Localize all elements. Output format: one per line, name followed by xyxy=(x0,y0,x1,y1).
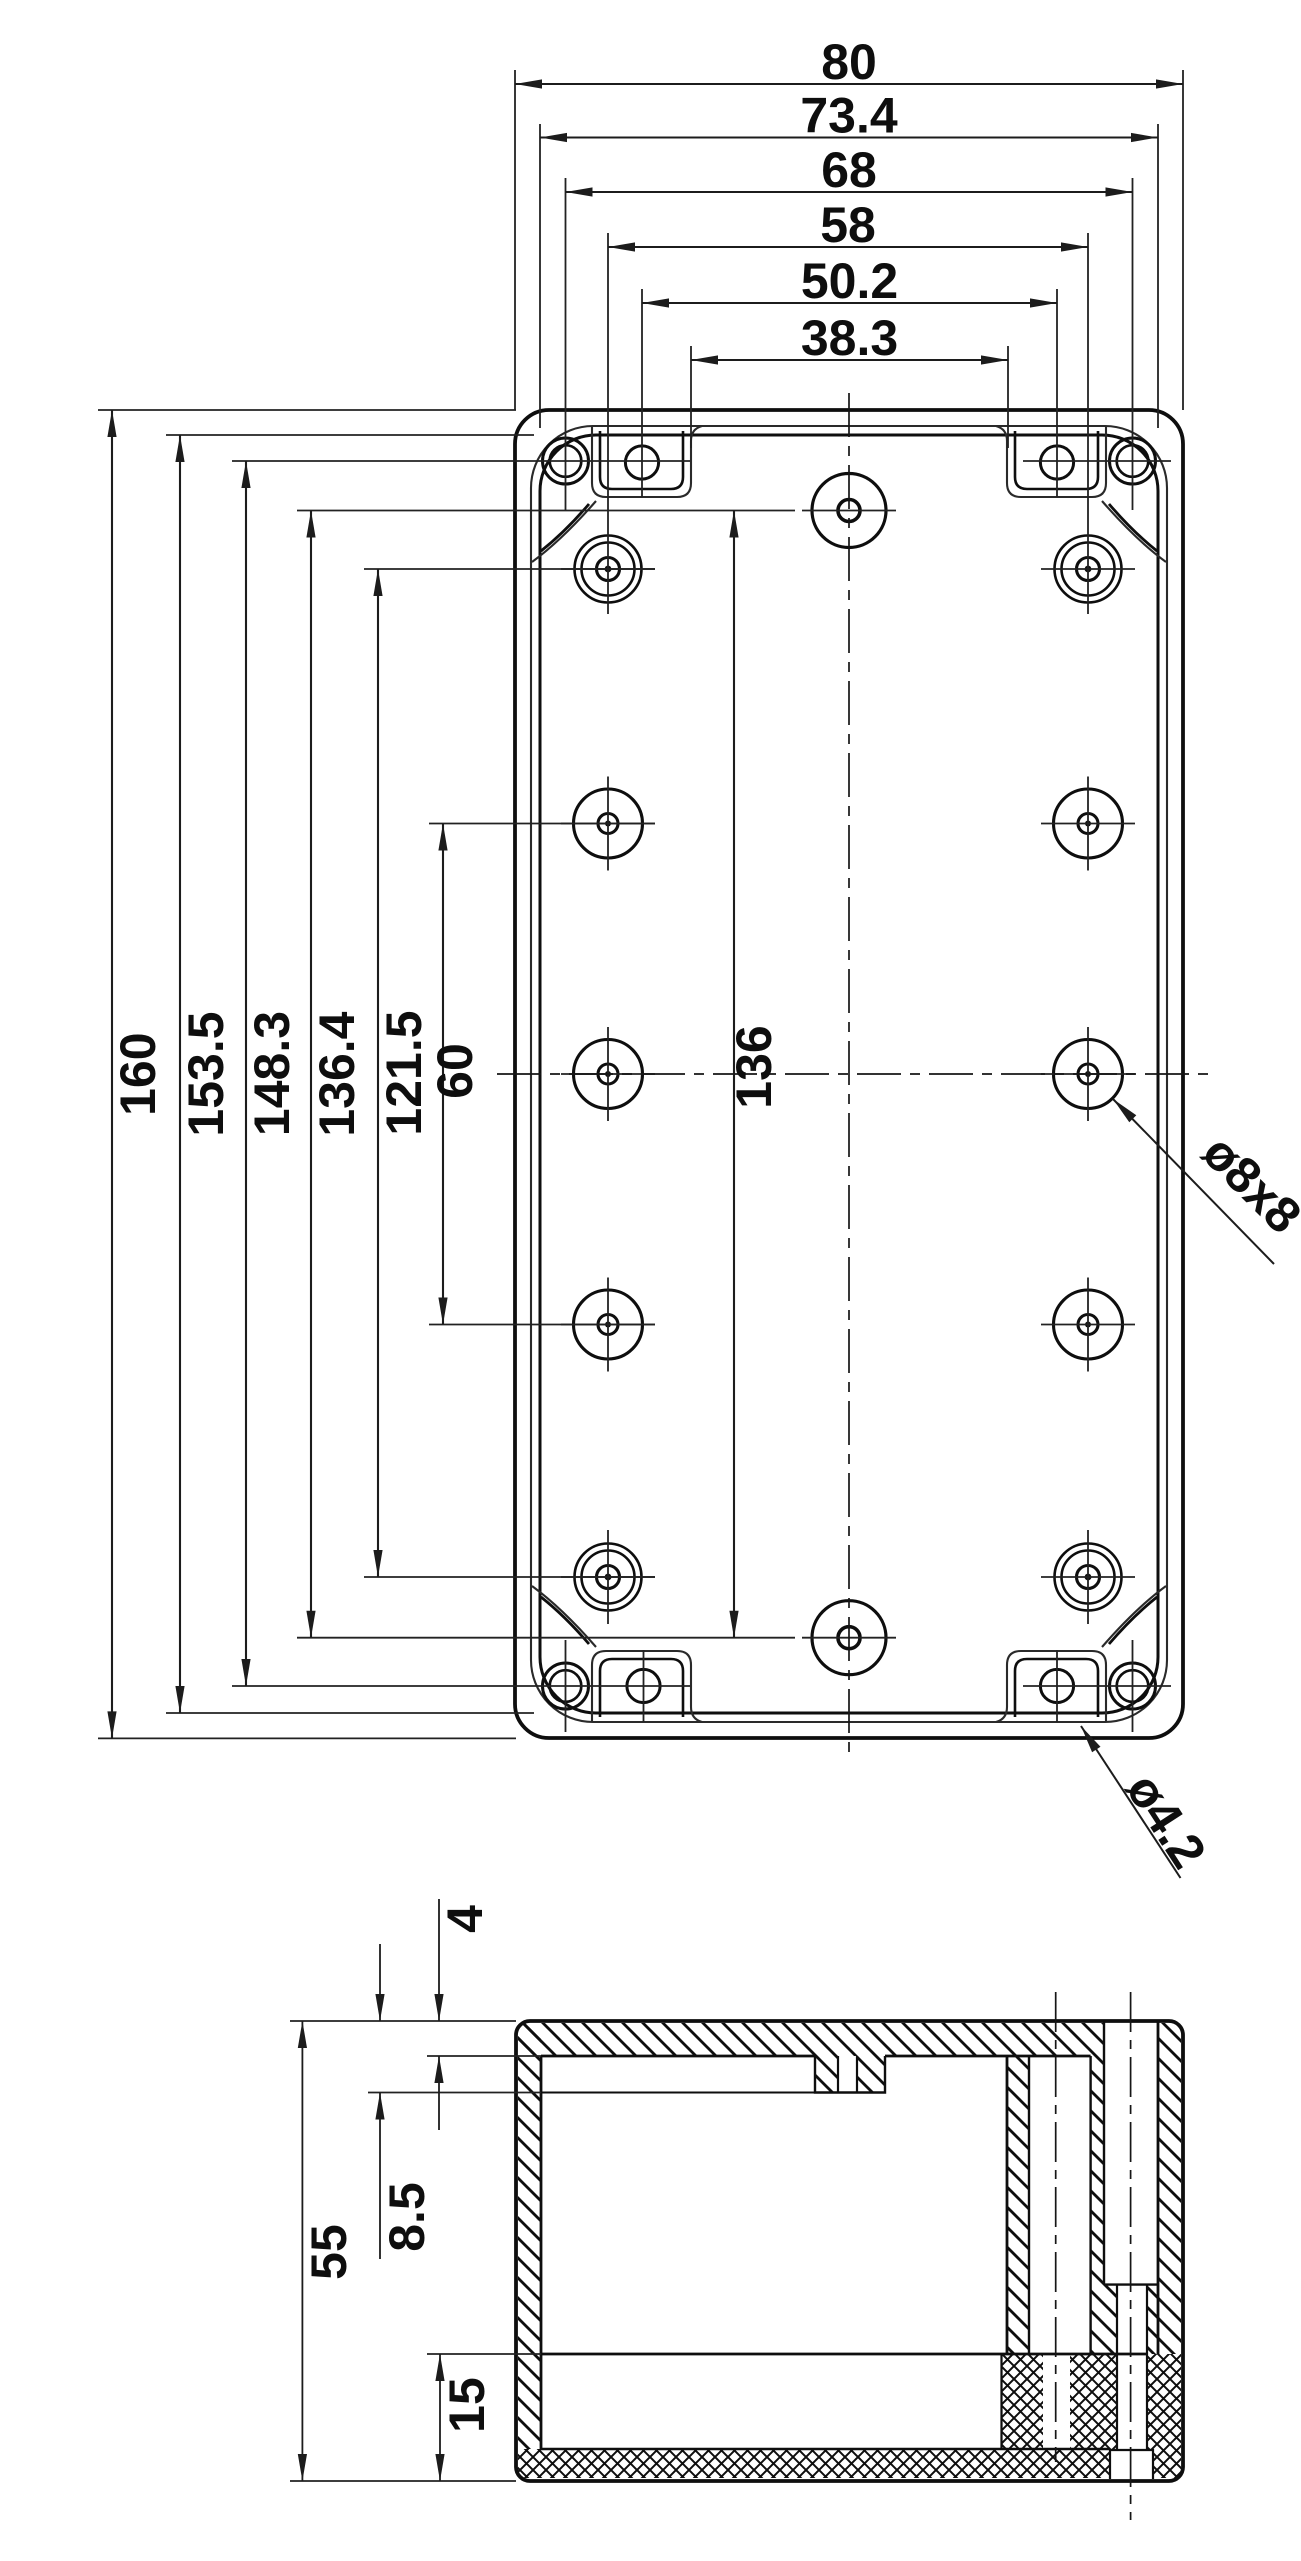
svg-text:121.5: 121.5 xyxy=(376,1010,432,1135)
boss hole diam 8x8 at (608,1074) xyxy=(574,1040,643,1109)
svg-text:68: 68 xyxy=(821,142,877,198)
svg-text:73.4: 73.4 xyxy=(800,88,898,144)
countersunk boss at (1088,1577) xyxy=(1055,1544,1122,1611)
bottom-left corner scallop arcs xyxy=(532,1586,596,1647)
svg-text:50.2: 50.2 xyxy=(801,253,898,309)
dimension 136 line xyxy=(729,511,738,1638)
svg-text:153.5: 153.5 xyxy=(178,1011,234,1136)
left corner screws horizontal centerline (merges with 148.3 extension) xyxy=(232,460,690,462)
boss hole diam 8x8 at (1088,1074) xyxy=(1054,1040,1123,1109)
dimension 148.3 line xyxy=(241,461,250,1686)
dimension 15 line xyxy=(435,2354,444,2481)
top-left pocket screw hole xyxy=(625,446,658,479)
boss crosshair lines xyxy=(561,569,1135,1624)
bottom-right corner scallop arcs xyxy=(1102,1586,1166,1647)
section: right wall lower strips hatch xyxy=(1104,2285,1117,2354)
svg-text:15: 15 xyxy=(439,2377,495,2433)
top center hole xyxy=(802,474,896,548)
section: lid step ledge line (8.5) xyxy=(541,2092,815,2094)
top-right pocket screw hole xyxy=(1040,446,1073,479)
top view: cavity contour outer line xyxy=(531,426,1167,1722)
section: screw column bottom line xyxy=(1104,2283,1158,2285)
svg-text:148.3: 148.3 xyxy=(244,1011,300,1136)
dimension 73.4 line xyxy=(540,133,1158,142)
section: screw centerline left xyxy=(1055,1992,1057,2462)
dimension 58 line xyxy=(608,242,1088,251)
top-left corner scallop arcs xyxy=(532,501,596,562)
dimension 121.5 line xyxy=(373,569,382,1577)
countersunk boss at (608,1577) xyxy=(575,1544,642,1611)
dimension 38.3 line xyxy=(691,355,1008,364)
extension lines for vertical dimensions xyxy=(98,410,795,1738)
dimension 50.2 line xyxy=(642,298,1057,307)
boss hole diam 8x8 at (1088,823.5) xyxy=(1054,789,1123,858)
svg-text:60: 60 xyxy=(427,1043,483,1099)
right corner screws horizontal centerline xyxy=(1023,460,1171,462)
svg-text:55: 55 xyxy=(301,2224,357,2280)
section: cavity floor line xyxy=(541,2353,1147,2356)
section: plinth top line xyxy=(541,2448,1110,2450)
bottom center hole xyxy=(802,1601,896,1675)
top-right corner lid screw hole (diam 4.2) xyxy=(1110,438,1156,484)
section: screw centerline right xyxy=(1130,1992,1132,2520)
dimension 55 line xyxy=(298,2021,307,2481)
extension lines for horizontal dimensions xyxy=(515,70,1183,614)
section: bottom-right white pocket outline xyxy=(1110,2450,1153,2479)
boss hole diam 8x8 at (608,1324.5) xyxy=(574,1290,643,1359)
top-left corner lid screw hole (diam 4.2) xyxy=(543,438,589,484)
svg-text:136: 136 xyxy=(726,1025,782,1108)
vertical centerline xyxy=(848,393,850,1756)
section: lid screw notch outline xyxy=(815,2056,885,2093)
top view: outer flange outline xyxy=(515,410,1183,1738)
dimension 153.5 line xyxy=(175,435,184,1713)
dimension 60 line xyxy=(438,824,447,1325)
svg-text:38.3: 38.3 xyxy=(801,310,898,366)
countersunk boss at (1088,569) xyxy=(1055,536,1122,603)
svg-text:160: 160 xyxy=(110,1032,166,1115)
section: left wall inner edge xyxy=(540,2056,543,2449)
bottom-right screw pocket outer line xyxy=(996,1651,1106,1722)
section: inner wall A hatch xyxy=(1007,2056,1029,2354)
top-right corner scallop arcs xyxy=(1102,501,1166,562)
top-left screw pocket outer line xyxy=(592,426,702,497)
section: wall B lines xyxy=(1089,2056,1091,2354)
top-left screw pocket inner line xyxy=(600,431,683,489)
bottom-left pocket screw hole xyxy=(627,1669,660,1702)
top view: cavity contour inner line xyxy=(540,435,1158,1713)
dimension 136.4 line xyxy=(306,511,315,1638)
svg-text:80: 80 xyxy=(821,34,877,90)
section: bottom plinth cross-hatch xyxy=(518,2354,1183,2479)
leader diam 8x8 xyxy=(1113,1099,1274,1264)
section: screw pocket inner lines xyxy=(1116,2285,1118,2449)
top-right screw pocket inner line xyxy=(1015,431,1098,489)
section: cavity right edge / wall A lines xyxy=(1006,2056,1009,2354)
countersunk boss at (608,569) xyxy=(575,536,642,603)
bottom-right pocket screw hole xyxy=(1040,1669,1073,1702)
bottom-right screw pocket inner line xyxy=(1015,1659,1098,1717)
horizontal centerline xyxy=(497,1073,1211,1075)
boss hole diam 8x8 at (1088,1324.5) xyxy=(1054,1290,1123,1359)
boss hole diam 8x8 at (608,823.5) xyxy=(574,789,643,858)
section: right outer wall inner edge xyxy=(1157,2021,1160,2354)
svg-text:136.4: 136.4 xyxy=(309,1011,365,1136)
svg-text:4: 4 xyxy=(437,1905,493,1933)
svg-text:8.5: 8.5 xyxy=(379,2182,435,2252)
section: outer outline xyxy=(516,2021,1183,2481)
section: right outer wall hatch xyxy=(1158,2023,1181,2354)
bottom-left screw pocket inner line xyxy=(600,1659,683,1717)
top-right screw pocket outer line xyxy=(996,426,1106,497)
section: lid hatch xyxy=(518,2023,1104,2093)
section extension lines xyxy=(290,2021,541,2481)
dimension 68 line xyxy=(566,187,1133,196)
bottom corner screws vertical centerlines xyxy=(565,1640,567,1732)
bottom-right corner lid screw hole (diam 4.2) xyxy=(1110,1663,1156,1709)
dimension 80 line xyxy=(515,79,1183,88)
section: lid inner face line xyxy=(541,2055,815,2058)
leader diam 4.2 xyxy=(1081,1726,1181,1878)
bottom-left corner lid screw hole (diam 4.2) xyxy=(543,1663,589,1709)
svg-text:58: 58 xyxy=(820,197,876,253)
dimension 8.5 line xyxy=(375,1944,384,2259)
bottom-left screw pocket outer line xyxy=(592,1651,702,1722)
section: left wall hatch xyxy=(518,2023,541,2449)
dimension 4 line xyxy=(434,1899,443,2130)
section: inner wall B hatch xyxy=(1091,2056,1104,2354)
dimension 160 line xyxy=(107,410,116,1738)
